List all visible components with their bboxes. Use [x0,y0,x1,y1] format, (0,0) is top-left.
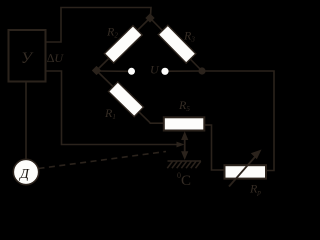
wire lower stub from amplifier down and right (control link) [46,71,177,145]
terminal left (white circle) [128,68,135,75]
wire right U terminal to right node [169,70,203,72]
resistor R2 [104,26,142,63]
amplifier box U1 (У) [9,30,46,82]
wire left node to left U terminal [97,70,129,72]
wire amplifier to motor [25,82,27,161]
wire bridge arm top-right (R3 arm) [150,18,202,71]
svg-text:Д: Д [18,167,30,182]
wire bottom node to R5 [150,122,164,124]
wire from amplifier top to bridge top node [46,8,151,43]
arrowhead of control link [177,142,185,148]
wire bridge arm top-left (R2 arm) [97,18,151,71]
rheostat Rp [225,165,267,178]
wire bridge arm left-bottom (R1 arm) [97,71,151,123]
resistor R1 [108,82,143,117]
node left [92,66,101,75]
heated medium hatching [167,161,201,168]
resistor R5 (thermistor) [164,117,205,130]
node top [145,13,154,22]
svg-text:∆U: ∆U [47,51,64,65]
wire right node to right rail down to Rp [202,71,274,171]
resistor R3 [158,25,196,63]
wire R5 to rheostat Rp [205,125,225,170]
motor Д [13,159,38,184]
svg-text:U: U [150,63,160,77]
node right [198,67,205,74]
mechanical link (dashed) from motor to heater [39,152,167,169]
heater double arrow [177,131,189,160]
rheostat arrow [229,150,262,187]
terminal right (white circle) [161,68,168,75]
